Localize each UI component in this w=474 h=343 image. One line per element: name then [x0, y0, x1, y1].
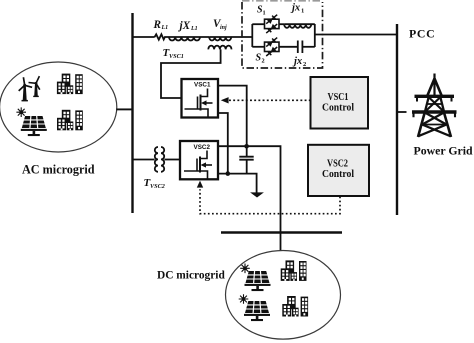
wire S1 to jx1 [279, 23, 284, 25]
label VSC2 [194, 144, 211, 151]
transformer T_VSC2 [155, 147, 164, 172]
dashed control line VSC1 [229, 99, 311, 101]
svg-text:jx: jx [290, 2, 300, 13]
svg-text:Power Grid: Power Grid [414, 144, 474, 158]
capacitor jx2 [298, 41, 315, 54]
MOSFET U2 inside VSC2 [184, 151, 212, 180]
AC bus (left vertical bus) [131, 13, 133, 213]
wire bus to resistor [132, 36, 155, 38]
arrowhead into VSC1 [221, 97, 229, 103]
thyristor glyph S1 bottom [266, 24, 277, 33]
inductor jx1 [284, 24, 315, 28]
wire VSC2 bottom to ground [218, 174, 257, 193]
switch S2 box [265, 42, 280, 51]
svg-text:2: 2 [262, 58, 265, 65]
AC solar panel [21, 116, 47, 136]
wire VSC1 top-right to DC link [218, 86, 247, 147]
svg-text:DC microgrid: DC microgrid [157, 270, 225, 282]
VSC2 Control box [308, 145, 369, 196]
transformer primary V_inj coil [209, 37, 231, 41]
AC sun [16, 107, 26, 117]
label T_VSC1 [163, 47, 184, 60]
right join bar [314, 24, 316, 47]
wire transformer to VSC2 [164, 159, 180, 161]
DC sun 1 [240, 264, 250, 274]
label V_inj [213, 18, 227, 31]
transmission tower icon [412, 74, 457, 138]
wire V_inj to switch box [231, 36, 253, 38]
thyristor glyph S2 bottom [266, 47, 277, 56]
wind turbine 1 [19, 77, 32, 101]
label jx1 [290, 2, 304, 14]
svg-text:Control: Control [322, 168, 354, 180]
svg-text:1: 1 [301, 8, 304, 15]
DC sun 2 [239, 294, 249, 304]
VSC1 Control box [311, 77, 369, 129]
wire VSC1 lower-right down [218, 113, 228, 174]
label VSC1 Control [322, 91, 354, 114]
svg-text:AC microgrid: AC microgrid [22, 163, 95, 177]
svg-text:VSC2: VSC2 [194, 144, 211, 151]
svg-text:L1: L1 [190, 26, 198, 32]
label jx2 [292, 56, 306, 68]
svg-text:VSC1: VSC1 [169, 53, 184, 60]
switch box dash-dot border [242, 2, 323, 68]
label T_VSC2 [144, 177, 165, 190]
wire bus to transformer [132, 159, 155, 161]
label AC microgrid [22, 163, 95, 177]
inductor jX_L1 [169, 37, 209, 41]
DC microgrid ellipse [226, 250, 341, 339]
DC bus [221, 231, 342, 233]
label Power Grid [414, 144, 474, 158]
thyristor glyph S1 top [266, 15, 277, 24]
dashed control line VSC2 [200, 189, 340, 214]
MOSFET U2 arrow [201, 162, 207, 167]
svg-text:jx: jx [292, 56, 302, 67]
resistor R_L1 [155, 34, 169, 39]
MOSFET U1 inside VSC1 [185, 89, 213, 118]
svg-text:VSC2: VSC2 [150, 183, 165, 190]
PCC bus (right vertical bus) [396, 24, 398, 215]
left join bar [251, 24, 253, 47]
label DC microgrid [157, 270, 225, 282]
MOSFET U1 arrow [201, 100, 207, 105]
VSC1 box [182, 79, 219, 118]
VSC2 box [180, 141, 218, 179]
svg-text:PCC: PCC [409, 26, 435, 40]
DC buildings 2 [282, 296, 308, 317]
svg-text:L1: L1 [161, 25, 169, 31]
thyristor glyph S2 top [266, 38, 277, 47]
label VSC2 Control [322, 157, 354, 180]
switch box top border (faded) [242, 0, 323, 2]
ground [250, 192, 264, 197]
label PCC [409, 26, 435, 40]
label R_L1 [153, 19, 169, 31]
wire S2 to jx2 [279, 46, 298, 48]
AC microgrid ellipse [0, 62, 117, 152]
label S1 [257, 5, 266, 17]
svg-text:2: 2 [303, 61, 306, 68]
switch S1 box [265, 19, 280, 28]
tick to power grid [397, 111, 407, 113]
transformer secondary T_VSC1 coil [208, 46, 231, 50]
junction dot DC- [226, 171, 231, 176]
wire VSC2 top to DC microgrid [218, 146, 281, 251]
bottom branch wire to S2 [252, 46, 264, 48]
svg-text:VSC1: VSC1 [194, 82, 211, 89]
junction dot DC+ [244, 144, 249, 149]
exit wire to PCC bus [315, 34, 397, 36]
svg-text:1: 1 [263, 10, 266, 17]
capacitor C_dc [239, 146, 253, 173]
label VSC1 [194, 82, 211, 89]
wind turbine 2 [29, 76, 40, 97]
wire secondary to VSC1 [161, 49, 221, 98]
svg-text:Control: Control [322, 101, 354, 113]
wire jx1 to right bar [252, 23, 264, 25]
label S2 [256, 53, 265, 65]
DC buildings 1 [281, 260, 307, 281]
svg-text:R: R [153, 19, 162, 31]
DC solar panel 2 [244, 301, 270, 321]
svg-text:jX: jX [178, 20, 191, 32]
DC solar panel 1 [245, 271, 271, 291]
AC buildings top [57, 74, 83, 95]
AC buildings bottom [57, 110, 83, 131]
label jX_L1 [178, 20, 198, 32]
svg-text:inj: inj [220, 25, 227, 31]
tick ellipse to AC bus [116, 108, 132, 110]
arrowhead into VSC2 [197, 181, 203, 188]
